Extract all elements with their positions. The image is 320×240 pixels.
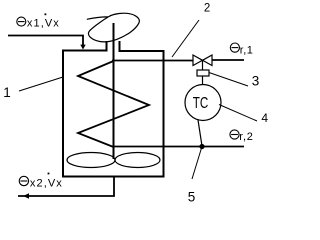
- valve stem: [202, 60, 204, 70]
- motor scribble (freehand loop above tank): [87, 13, 140, 42]
- leader line 1 (to tank wall): [19, 77, 63, 91]
- svg-text:TC: TC: [193, 95, 209, 112]
- label theta_x1,Vx (inlet temperature/flow): [17, 13, 60, 29]
- svg-text:x1,Vx: x1,Vx: [27, 17, 60, 29]
- wire inlet pipe (top left, with down arrow into tank): [8, 36, 86, 50]
- wire coil inlet pipe to valve (upper right): [112, 60, 193, 62]
- stirrer shaft: [113, 23, 115, 159]
- svg-text:4: 4: [261, 111, 268, 125]
- actuator 3 (small rectangle): [197, 70, 209, 76]
- controller TC 4 (circle with TC): [185, 85, 221, 121]
- node junction (sensor tap): [199, 144, 204, 149]
- wire coil outlet pipe (bottom right): [114, 146, 245, 148]
- leader line 5 (to junction): [192, 148, 202, 179]
- wire controller to sensor junction: [198, 120, 202, 146]
- svg-text:x2,Vx: x2,Vx: [30, 177, 63, 189]
- leader line 2 (to pipe): [172, 20, 199, 57]
- svg-text:3: 3: [252, 74, 260, 89]
- impeller blades (two ellipses): [67, 153, 160, 168]
- label theta_r,1: [230, 43, 253, 57]
- svg-text:r,2: r,2: [239, 131, 253, 143]
- wire actuator to controller: [202, 76, 204, 85]
- label theta_r,2: [230, 130, 254, 143]
- wire outlet pipe (bottom, with left arrow): [18, 177, 114, 199]
- svg-text:1: 1: [3, 85, 11, 100]
- svg-text:2: 2: [204, 3, 210, 15]
- svg-text:5: 5: [188, 190, 196, 205]
- heating coil zigzag (inside tank): [78, 61, 149, 147]
- label theta_x2,Vx (outlet temperature/flow): [19, 173, 63, 190]
- svg-text:r,1: r,1: [240, 45, 254, 57]
- leader line 4 (to controller): [219, 105, 257, 122]
- leader line 3 (to actuator): [209, 73, 248, 87]
- wire valve outlet pipe (right): [212, 59, 244, 61]
- valve V1 (bowtie): [193, 55, 212, 66]
- tank vessel 1 (walls with top rim opening): [63, 41, 164, 177]
